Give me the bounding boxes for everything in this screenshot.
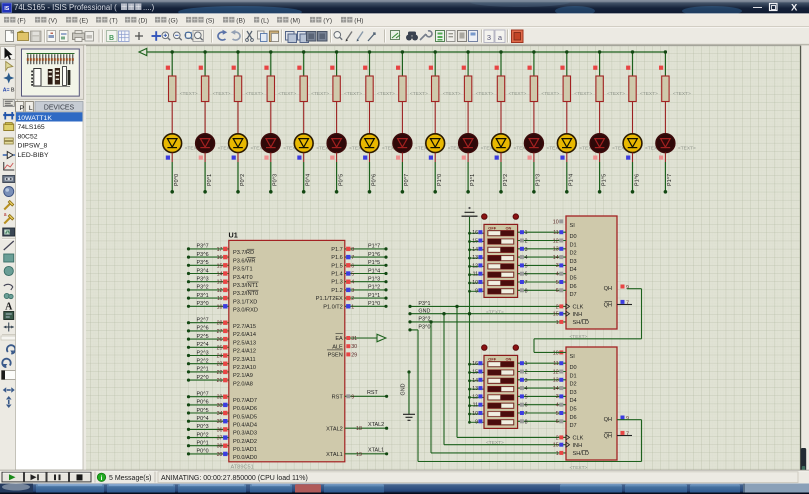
svg-text:13: 13 bbox=[553, 247, 559, 253]
svg-text:U1: U1 bbox=[229, 231, 238, 240]
svg-text:36: 36 bbox=[217, 427, 223, 433]
svg-text:P3^0: P3^0 bbox=[418, 325, 430, 331]
svg-text:39: 39 bbox=[217, 452, 223, 458]
svg-text:P2.6/A14: P2.6/A14 bbox=[233, 332, 256, 338]
svg-text:14: 14 bbox=[472, 247, 478, 253]
svg-text:P0^0: P0^0 bbox=[174, 174, 180, 186]
svg-text:11: 11 bbox=[217, 296, 223, 302]
svg-text:D0: D0 bbox=[570, 365, 577, 371]
svg-text:15: 15 bbox=[553, 312, 559, 318]
svg-text:<TEXT>: <TEXT> bbox=[486, 310, 504, 316]
svg-text:P1^2: P1^2 bbox=[503, 174, 509, 186]
svg-text:11: 11 bbox=[473, 272, 478, 278]
svg-text:12: 12 bbox=[472, 394, 478, 400]
svg-text:P0^6: P0^6 bbox=[197, 400, 209, 406]
svg-text:38: 38 bbox=[217, 444, 223, 450]
svg-text:P1.7: P1.7 bbox=[331, 247, 343, 253]
svg-text:31: 31 bbox=[351, 336, 357, 342]
svg-text:QH: QH bbox=[604, 303, 612, 309]
svg-text:<TEXT>: <TEXT> bbox=[486, 440, 504, 446]
svg-text:A: A bbox=[5, 301, 13, 312]
svg-text:3: 3 bbox=[351, 288, 354, 294]
svg-text:<TEXT>: <TEXT> bbox=[509, 91, 527, 97]
svg-text:P1^1: P1^1 bbox=[470, 174, 476, 186]
svg-text:P1^4: P1^4 bbox=[569, 174, 575, 186]
svg-text:P3^1: P3^1 bbox=[418, 301, 430, 307]
svg-text:<TEXT>: <TEXT> bbox=[574, 91, 592, 97]
svg-text:10WATT1K: 10WATT1K bbox=[18, 115, 53, 122]
svg-text:P1^6: P1^6 bbox=[368, 252, 380, 258]
svg-text:P2^6: P2^6 bbox=[197, 326, 209, 332]
svg-text:P0^3: P0^3 bbox=[197, 424, 209, 430]
svg-text:EA: EA bbox=[335, 336, 343, 342]
svg-text:INH: INH bbox=[573, 443, 583, 449]
svg-text:QH: QH bbox=[604, 417, 612, 423]
svg-text:18: 18 bbox=[356, 426, 362, 432]
svg-text:P1^0: P1^0 bbox=[437, 174, 443, 186]
svg-text:....): ....) bbox=[143, 3, 155, 12]
svg-text:P2^7: P2^7 bbox=[197, 318, 209, 324]
svg-text:1: 1 bbox=[525, 230, 528, 236]
svg-text:<TEXT>: <TEXT> bbox=[213, 91, 231, 97]
svg-text:9: 9 bbox=[626, 416, 629, 422]
svg-text:P0^7: P0^7 bbox=[197, 392, 209, 398]
svg-text:P2^4: P2^4 bbox=[197, 342, 209, 348]
svg-text:P0^4: P0^4 bbox=[197, 416, 209, 422]
svg-text:1: 1 bbox=[525, 361, 528, 367]
svg-text:10: 10 bbox=[472, 280, 478, 286]
svg-text:4: 4 bbox=[556, 403, 559, 409]
svg-text:QH: QH bbox=[604, 286, 612, 292]
svg-text:P1.4: P1.4 bbox=[331, 272, 343, 278]
svg-text:P0^4: P0^4 bbox=[306, 174, 312, 186]
svg-text:3: 3 bbox=[525, 247, 528, 253]
svg-text:<TEXT>: <TEXT> bbox=[673, 91, 691, 97]
svg-text:<TEXT>: <TEXT> bbox=[377, 91, 395, 97]
svg-text:DIPSW_8: DIPSW_8 bbox=[18, 143, 48, 150]
svg-text:<TEXT>: <TEXT> bbox=[607, 91, 625, 97]
svg-text:6: 6 bbox=[351, 263, 354, 269]
svg-text:P2.0/A8: P2.0/A8 bbox=[233, 381, 253, 387]
svg-text:P3.5/T1: P3.5/T1 bbox=[233, 267, 253, 273]
svg-text:14: 14 bbox=[553, 386, 559, 392]
svg-text:GND: GND bbox=[401, 383, 407, 395]
svg-text:SI: SI bbox=[570, 223, 576, 229]
svg-text:P1.6: P1.6 bbox=[331, 255, 343, 261]
svg-text:P1.0/T2: P1.0/T2 bbox=[323, 304, 343, 310]
svg-text:12: 12 bbox=[472, 263, 478, 269]
svg-text:9: 9 bbox=[475, 419, 478, 425]
svg-text:P3^6: P3^6 bbox=[197, 252, 209, 258]
svg-text:24: 24 bbox=[217, 354, 223, 360]
svg-text:34: 34 bbox=[217, 411, 223, 417]
svg-text:10: 10 bbox=[553, 219, 559, 225]
svg-text:P2^2: P2^2 bbox=[197, 359, 209, 365]
svg-text:6: 6 bbox=[525, 403, 528, 409]
svg-text:D7: D7 bbox=[570, 423, 577, 429]
svg-text:D2: D2 bbox=[570, 251, 577, 257]
svg-text:17: 17 bbox=[217, 247, 223, 253]
svg-text:3: 3 bbox=[556, 394, 559, 400]
svg-text:13: 13 bbox=[472, 386, 478, 392]
svg-text:P: P bbox=[20, 105, 25, 112]
svg-text:<TEXT>: <TEXT> bbox=[246, 91, 264, 97]
svg-text:P0^1: P0^1 bbox=[207, 174, 213, 186]
svg-text:7: 7 bbox=[525, 411, 528, 417]
svg-text:15: 15 bbox=[472, 370, 478, 376]
svg-text:P3^5: P3^5 bbox=[197, 260, 209, 266]
svg-text:5: 5 bbox=[351, 272, 354, 278]
svg-text:13: 13 bbox=[217, 280, 223, 286]
svg-text:P2^5: P2^5 bbox=[197, 334, 209, 340]
svg-text:26: 26 bbox=[217, 337, 223, 343]
svg-text:<TEXT>: <TEXT> bbox=[344, 91, 362, 97]
svg-text:(D): (D) bbox=[138, 17, 147, 24]
svg-text:<TEXT>: <TEXT> bbox=[640, 91, 658, 97]
svg-text:P2^3: P2^3 bbox=[197, 350, 209, 356]
svg-text:35: 35 bbox=[217, 419, 223, 425]
svg-text:D3: D3 bbox=[570, 390, 577, 396]
svg-text:8: 8 bbox=[525, 419, 528, 425]
svg-text:23: 23 bbox=[217, 362, 223, 368]
svg-text:QH: QH bbox=[604, 434, 612, 440]
svg-text:10: 10 bbox=[553, 350, 559, 356]
svg-text:IS: IS bbox=[4, 6, 9, 12]
svg-text:DEVICES: DEVICES bbox=[44, 105, 75, 112]
svg-text:P1^5: P1^5 bbox=[601, 174, 607, 186]
svg-text:ANIMATING: 00:00:27.850000 (CP: ANIMATING: 00:00:27.850000 (CPU load 11%… bbox=[161, 475, 308, 482]
svg-text:9: 9 bbox=[475, 288, 478, 294]
svg-text:P2.7/A15: P2.7/A15 bbox=[233, 324, 256, 330]
svg-text:P2^0: P2^0 bbox=[197, 375, 209, 381]
svg-text:(Y): (Y) bbox=[323, 17, 332, 24]
svg-text:6: 6 bbox=[556, 419, 559, 425]
svg-text:CLK: CLK bbox=[573, 436, 584, 442]
svg-text:P2.2/A10: P2.2/A10 bbox=[233, 365, 256, 371]
svg-text:P1^4: P1^4 bbox=[368, 268, 380, 274]
svg-text:P3^3: P3^3 bbox=[197, 277, 209, 283]
svg-text:B: B bbox=[109, 35, 114, 42]
svg-text:15: 15 bbox=[472, 239, 478, 245]
svg-text:4: 4 bbox=[351, 280, 354, 286]
svg-text:37: 37 bbox=[217, 436, 223, 442]
svg-text:ALE: ALE bbox=[332, 344, 343, 350]
svg-text:L: L bbox=[29, 105, 33, 112]
svg-text:(T): (T) bbox=[109, 17, 117, 24]
svg-text:(E): (E) bbox=[79, 17, 88, 24]
svg-text:P0.3/AD3: P0.3/AD3 bbox=[233, 431, 257, 437]
svg-text:P3.2/INT0: P3.2/INT0 bbox=[233, 291, 258, 297]
svg-text:7: 7 bbox=[626, 301, 629, 307]
svg-text:RST: RST bbox=[367, 390, 378, 396]
svg-text:<TEXT>: <TEXT> bbox=[278, 91, 296, 97]
svg-text:11: 11 bbox=[553, 230, 559, 236]
svg-text:28: 28 bbox=[217, 321, 223, 327]
svg-text:OFF: OFF bbox=[488, 357, 496, 362]
svg-text:<TEXT>: <TEXT> bbox=[311, 91, 329, 97]
svg-text:1: 1 bbox=[351, 304, 354, 310]
svg-text:P2.4/A12: P2.4/A12 bbox=[233, 349, 256, 355]
svg-text:2: 2 bbox=[556, 435, 559, 441]
svg-text:B: B bbox=[11, 88, 15, 94]
svg-text:D2: D2 bbox=[570, 382, 577, 388]
svg-text:16: 16 bbox=[472, 361, 478, 367]
svg-text:INH: INH bbox=[573, 312, 583, 318]
svg-text:1: 1 bbox=[556, 451, 559, 457]
svg-text:CLK: CLK bbox=[573, 305, 584, 311]
svg-text:D5: D5 bbox=[570, 276, 577, 282]
svg-text:1: 1 bbox=[556, 320, 559, 326]
svg-text:30: 30 bbox=[351, 344, 357, 350]
svg-text:P0^2: P0^2 bbox=[240, 174, 246, 186]
svg-text:GND: GND bbox=[418, 308, 430, 314]
svg-text:P3^2: P3^2 bbox=[197, 285, 209, 291]
svg-text:3: 3 bbox=[487, 33, 491, 42]
svg-text:15: 15 bbox=[553, 443, 559, 449]
svg-text:(B): (B) bbox=[236, 17, 245, 24]
svg-text:10: 10 bbox=[217, 304, 223, 310]
svg-text:P3^0: P3^0 bbox=[197, 301, 209, 307]
svg-text:D1: D1 bbox=[570, 242, 577, 248]
svg-text:11: 11 bbox=[473, 403, 478, 409]
svg-text:P1^3: P1^3 bbox=[536, 174, 542, 186]
svg-text:P3.4/T0: P3.4/T0 bbox=[233, 275, 253, 281]
svg-text:7: 7 bbox=[525, 280, 528, 286]
svg-text:7: 7 bbox=[626, 432, 629, 438]
svg-text:P1^0: P1^0 bbox=[368, 301, 380, 307]
svg-text:P1^5: P1^5 bbox=[368, 260, 380, 266]
svg-text:P3.3/INT1: P3.3/INT1 bbox=[233, 283, 258, 289]
svg-text:P3^1: P3^1 bbox=[197, 293, 209, 299]
svg-text:P0^7: P0^7 bbox=[404, 174, 410, 186]
svg-text:4: 4 bbox=[525, 255, 528, 261]
svg-text:X: X bbox=[791, 3, 798, 14]
svg-text:P3.1/TXD: P3.1/TXD bbox=[233, 299, 257, 305]
svg-text:P1^6: P1^6 bbox=[634, 174, 640, 186]
svg-text:P1.3: P1.3 bbox=[331, 280, 343, 286]
svg-text:P3^7: P3^7 bbox=[197, 244, 209, 250]
svg-text:9: 9 bbox=[351, 394, 354, 400]
svg-text:2: 2 bbox=[525, 239, 528, 245]
svg-text:—: — bbox=[753, 2, 762, 12]
svg-text:16: 16 bbox=[472, 230, 478, 236]
svg-text:D7: D7 bbox=[570, 292, 577, 298]
svg-text:P0^5: P0^5 bbox=[197, 408, 209, 414]
svg-text:P1^7: P1^7 bbox=[368, 244, 380, 250]
svg-text:19: 19 bbox=[356, 452, 362, 458]
svg-text:74LS165 - ISIS Professional (: 74LS165 - ISIS Professional ( bbox=[14, 3, 117, 12]
svg-text:XTAL1: XTAL1 bbox=[326, 452, 343, 458]
svg-text:P0.5/AD5: P0.5/AD5 bbox=[233, 414, 257, 420]
svg-text:P0.7/AD7: P0.7/AD7 bbox=[233, 398, 257, 404]
svg-text:RST: RST bbox=[332, 394, 344, 400]
svg-text:16: 16 bbox=[217, 255, 223, 261]
svg-text:5: 5 bbox=[525, 263, 528, 269]
svg-text:XTAL1: XTAL1 bbox=[368, 448, 384, 454]
svg-text:5 Message(s): 5 Message(s) bbox=[109, 475, 151, 482]
svg-text:27: 27 bbox=[217, 329, 223, 335]
svg-text:SH/LD: SH/LD bbox=[573, 451, 589, 457]
svg-text:a: a bbox=[4, 212, 7, 218]
svg-text:(H): (H) bbox=[354, 17, 363, 24]
svg-text:D0: D0 bbox=[570, 234, 577, 240]
svg-text:P3.0/RXD: P3.0/RXD bbox=[233, 308, 258, 314]
svg-text:10: 10 bbox=[472, 411, 478, 417]
svg-text:P1^7: P1^7 bbox=[667, 174, 673, 186]
svg-text:(V): (V) bbox=[48, 17, 57, 24]
svg-text:5: 5 bbox=[556, 280, 559, 286]
svg-text:(S): (S) bbox=[206, 17, 215, 24]
svg-text:(L): (L) bbox=[261, 17, 269, 24]
svg-text:P3.6/WR: P3.6/WR bbox=[233, 258, 255, 264]
svg-text:4: 4 bbox=[525, 386, 528, 392]
svg-text:P3^2: P3^2 bbox=[418, 317, 430, 323]
svg-text:D6: D6 bbox=[570, 415, 577, 421]
svg-text:OFF: OFF bbox=[488, 226, 496, 231]
svg-text:2: 2 bbox=[556, 304, 559, 310]
svg-text:(F): (F) bbox=[17, 17, 25, 24]
svg-text:P3^4: P3^4 bbox=[197, 268, 209, 274]
svg-text:P0^6: P0^6 bbox=[371, 174, 377, 186]
svg-text:9: 9 bbox=[626, 285, 629, 291]
svg-text:ON: ON bbox=[506, 357, 512, 362]
svg-text:(M): (M) bbox=[290, 17, 300, 24]
svg-text:74LS165: 74LS165 bbox=[18, 124, 45, 131]
svg-text:P1.1/T2EX: P1.1/T2EX bbox=[316, 296, 343, 302]
svg-text:<TEXT>: <TEXT> bbox=[476, 91, 494, 97]
svg-text:(G): (G) bbox=[168, 17, 178, 24]
svg-text:8: 8 bbox=[351, 247, 354, 253]
svg-text:11: 11 bbox=[553, 361, 559, 367]
svg-text:5: 5 bbox=[556, 411, 559, 417]
svg-text:SI: SI bbox=[570, 354, 576, 360]
svg-text:29: 29 bbox=[351, 352, 357, 358]
svg-text:5: 5 bbox=[525, 394, 528, 400]
svg-text:13: 13 bbox=[472, 255, 478, 261]
svg-text:25: 25 bbox=[217, 345, 223, 351]
svg-text:80C52: 80C52 bbox=[18, 133, 38, 140]
svg-text:P0^2: P0^2 bbox=[197, 432, 209, 438]
svg-text:P0.1/AD1: P0.1/AD1 bbox=[233, 447, 257, 453]
svg-text:P2^1: P2^1 bbox=[197, 367, 209, 373]
svg-text:D1: D1 bbox=[570, 373, 577, 379]
svg-text:P0^1: P0^1 bbox=[197, 441, 209, 447]
svg-text:2: 2 bbox=[525, 370, 528, 376]
svg-text:D4: D4 bbox=[570, 267, 577, 273]
svg-text:P1.5: P1.5 bbox=[331, 263, 343, 269]
svg-text:P0^3: P0^3 bbox=[273, 174, 279, 186]
svg-text:7: 7 bbox=[351, 255, 354, 261]
svg-text:14: 14 bbox=[217, 272, 223, 278]
svg-text:P1.2: P1.2 bbox=[331, 288, 343, 294]
svg-text:6: 6 bbox=[525, 272, 528, 278]
svg-text:21: 21 bbox=[217, 378, 223, 384]
svg-text:<TEXT>: <TEXT> bbox=[410, 91, 428, 97]
svg-text:<TEXT>: <TEXT> bbox=[443, 91, 461, 97]
svg-text:P0.0/AD0: P0.0/AD0 bbox=[233, 455, 257, 461]
svg-text:15: 15 bbox=[217, 263, 223, 269]
svg-text:32: 32 bbox=[217, 395, 223, 401]
svg-text:P0^5: P0^5 bbox=[338, 174, 344, 186]
svg-text:D6: D6 bbox=[570, 284, 577, 290]
svg-text:<TEXT>: <TEXT> bbox=[180, 91, 198, 97]
svg-text:ON: ON bbox=[506, 226, 512, 231]
svg-text:XTAL2: XTAL2 bbox=[368, 422, 384, 428]
svg-text:PSEN: PSEN bbox=[328, 353, 343, 359]
svg-text:P2.1/A9: P2.1/A9 bbox=[233, 373, 253, 379]
svg-text:6: 6 bbox=[556, 288, 559, 294]
svg-text:4: 4 bbox=[556, 272, 559, 278]
svg-text:P1^1: P1^1 bbox=[368, 293, 380, 299]
svg-text:P0^0: P0^0 bbox=[197, 449, 209, 455]
svg-text:P0.6/AD6: P0.6/AD6 bbox=[233, 406, 257, 412]
svg-text:SH/LD: SH/LD bbox=[573, 320, 589, 326]
svg-text:2: 2 bbox=[351, 296, 354, 302]
svg-text:P1^2: P1^2 bbox=[368, 285, 380, 291]
svg-text:D4: D4 bbox=[570, 398, 577, 404]
svg-text:<TEXT>: <TEXT> bbox=[541, 91, 559, 97]
svg-text:12: 12 bbox=[553, 369, 559, 375]
svg-text:8: 8 bbox=[525, 288, 528, 294]
svg-text:D3: D3 bbox=[570, 259, 577, 265]
svg-text:XTAL2: XTAL2 bbox=[326, 426, 343, 432]
svg-text:AT89C51: AT89C51 bbox=[231, 464, 254, 470]
svg-text:12: 12 bbox=[217, 288, 223, 294]
svg-text:<TEXT>: <TEXT> bbox=[678, 146, 696, 152]
svg-text:14: 14 bbox=[553, 255, 559, 261]
svg-text:P2.3/A11: P2.3/A11 bbox=[233, 357, 256, 363]
svg-text:i: i bbox=[101, 475, 103, 482]
svg-text:33: 33 bbox=[217, 403, 223, 409]
svg-text:3: 3 bbox=[556, 263, 559, 269]
svg-text:14: 14 bbox=[472, 378, 478, 384]
svg-text:13: 13 bbox=[553, 378, 559, 384]
svg-text:P3.7/RD: P3.7/RD bbox=[233, 250, 254, 256]
svg-text:22: 22 bbox=[217, 370, 223, 376]
svg-text:P0.2/AD2: P0.2/AD2 bbox=[233, 439, 257, 445]
svg-text:D5: D5 bbox=[570, 407, 577, 413]
svg-text:P1^3: P1^3 bbox=[368, 277, 380, 283]
svg-text:P0.4/AD4: P0.4/AD4 bbox=[233, 423, 257, 429]
svg-text:12: 12 bbox=[553, 238, 559, 244]
svg-text:P2.5/A13: P2.5/A13 bbox=[233, 340, 256, 346]
svg-text:A=: A= bbox=[3, 88, 10, 94]
svg-text:LED-BIBY: LED-BIBY bbox=[18, 152, 49, 159]
svg-text:3: 3 bbox=[525, 378, 528, 384]
